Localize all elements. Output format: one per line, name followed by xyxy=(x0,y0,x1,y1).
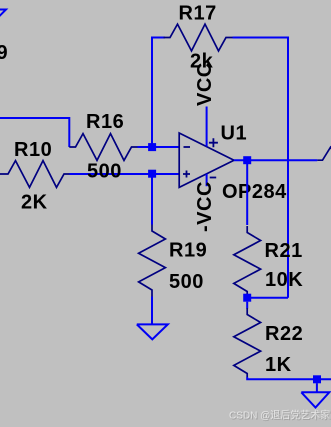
resistor R16 xyxy=(69,134,137,161)
wire (R10 to non-inverting node) xyxy=(70,173,180,175)
wire (left feed into R16: horizontal then down) xyxy=(0,118,69,147)
ground (below R19) xyxy=(137,324,168,339)
svg-text:1K: 1K xyxy=(265,354,292,376)
wire (R16 to inverting node) xyxy=(138,146,180,148)
wire (R19 to ground) xyxy=(151,297,153,325)
pin -VCC (negative supply stub) xyxy=(206,174,208,186)
pin - (supply minus marker) xyxy=(210,177,217,179)
svg-text:R17: R17 xyxy=(179,3,217,25)
svg-text:2K: 2K xyxy=(21,192,48,214)
ground (top-left, partially off-canvas) xyxy=(0,10,6,25)
svg-text:R22: R22 xyxy=(265,323,303,345)
resistor R22 xyxy=(234,308,261,377)
pin + (non-inverting input marker) xyxy=(183,171,190,178)
wire (R22 bottom rail to right edge) xyxy=(247,377,331,379)
op-amp U1 xyxy=(179,133,234,187)
resistor R17 xyxy=(164,24,233,51)
wire (ground stub) xyxy=(316,383,318,392)
wire (output down to R21) xyxy=(246,160,248,225)
svg-text:R21: R21 xyxy=(265,240,303,262)
svg-text:10K: 10K xyxy=(265,269,303,291)
svg-text:VCC: VCC xyxy=(194,62,216,106)
wire (feedback bottom into divider node) xyxy=(247,297,288,299)
wire (feedback left riser: node A up to R17) xyxy=(152,38,165,148)
svg-text:500: 500 xyxy=(87,161,122,183)
svg-text:R10: R10 xyxy=(14,139,52,161)
pin - (inverting input marker) xyxy=(184,146,191,148)
ground (bottom-right) xyxy=(301,392,329,407)
svg-text:-VCC: -VCC xyxy=(194,181,216,232)
resistor R10 xyxy=(0,161,70,188)
svg-text:9: 9 xyxy=(0,42,8,64)
pin + (supply plus marker) xyxy=(209,138,218,147)
svg-text:OP284: OP284 xyxy=(222,181,287,203)
resistor R21 xyxy=(234,226,261,294)
svg-text:R16: R16 xyxy=(86,111,124,133)
svg-text:R19: R19 xyxy=(169,240,207,262)
svg-text:CSDN @退后党艺术家: CSDN @退后党艺术家 xyxy=(229,409,330,422)
svg-text:U1: U1 xyxy=(221,123,248,145)
wire (R17 right to feedback drop) xyxy=(233,38,289,298)
resistor R19 xyxy=(139,225,166,297)
wire (op-amp output) xyxy=(234,159,317,161)
wire (node B down to R19) xyxy=(151,174,153,225)
pin VCC (positive supply stub) xyxy=(206,107,208,147)
resistor R23 (partially off-canvas at right) xyxy=(317,147,331,160)
wire (node D to R22) xyxy=(246,302,248,309)
node B (non-inverting input junction) xyxy=(148,170,156,178)
node A (inverting input junction) xyxy=(148,143,156,151)
svg-text:500: 500 xyxy=(169,271,204,293)
node C (output junction) xyxy=(243,156,251,164)
node E (ground tap junction) xyxy=(313,375,321,383)
node D (R21/R22 divider junction) xyxy=(243,294,251,302)
